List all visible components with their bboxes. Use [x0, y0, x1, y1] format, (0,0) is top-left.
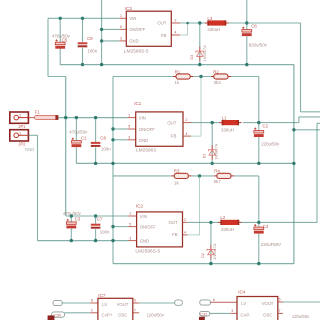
- wire D1 branch: [211, 123, 213, 164]
- svg-text:R2: R2: [213, 69, 219, 74]
- node right gnd junction row B: [292, 162, 295, 165]
- wire JP2 to gnd corner: [28, 134, 37, 136]
- wire R4 to output node: [234, 175, 259, 177]
- resistor R2: [211, 74, 231, 79]
- svg-text:L3: L3: [207, 16, 212, 21]
- node D3 top junction: [198, 21, 201, 24]
- wire R3 to R4: [191, 175, 213, 177]
- capacitor C3: [66, 219, 76, 228]
- svg-text:IC7: IC7: [98, 293, 106, 298]
- wire C7 branch: [95, 216, 97, 224]
- svg-text:100n: 100n: [101, 147, 111, 152]
- pin stub IC4 LV long: [210, 301, 237, 303]
- svg-text:D3: D3: [190, 55, 194, 60]
- diode D2: [207, 245, 215, 259]
- svg-text:5: 5: [134, 299, 136, 303]
- wire L2 to right riser: [242, 221, 317, 223]
- capacitor C32: [199, 311, 210, 320]
- wire IC1 GND: [113, 139, 128, 141]
- pad SJ2: [175, 300, 183, 305]
- op-amp U-box IC3 regulator: [126, 11, 171, 46]
- op-amp U-box IC1 regulator: [136, 112, 183, 146]
- wire FB jog to pin: [191, 135, 201, 137]
- wire L1 to C2: [243, 122, 299, 124]
- svg-text:C32: C32: [200, 313, 207, 317]
- wire +12V jog: [48, 76, 66, 78]
- node C9 bottom junction: [81, 63, 84, 66]
- pin stubs IC4 right: [278, 301, 283, 303]
- resistor R3: [171, 173, 191, 178]
- node C3 top junction: [70, 214, 73, 217]
- node C2 top junction: [257, 121, 260, 124]
- svg-text:1: 1: [129, 212, 131, 216]
- node C3 gnd junction: [70, 239, 73, 242]
- pin stub IC4 CAP-: [231, 312, 237, 314]
- svg-text:C1: C1: [81, 136, 87, 141]
- svg-text:4: 4: [186, 132, 188, 136]
- svg-text:C4: C4: [263, 224, 269, 229]
- resistor R4: [214, 173, 234, 178]
- svg-text:4: 4: [175, 31, 177, 35]
- wire +5V3 exit right: [301, 111, 320, 113]
- wire C4 branch: [258, 222, 260, 227]
- node C7 top junction: [94, 214, 97, 217]
- wire IC2 ON/OFF: [113, 226, 129, 228]
- node D2 gnd junction: [209, 262, 212, 265]
- svg-text:FB: FB: [172, 232, 178, 237]
- wire +12V vertical trunk left segment: [47, 18, 49, 76]
- node D3 gnd junction: [198, 63, 201, 66]
- svg-text:L1: L1: [222, 115, 227, 120]
- op-amp U-box IC2 regulator: [137, 212, 183, 247]
- svg-text:330uH: 330uH: [207, 27, 220, 32]
- svg-text:2: 2: [186, 118, 188, 122]
- svg-text:CAP-: CAP-: [241, 313, 252, 318]
- wire FB divider vertical: [200, 77, 202, 137]
- svg-text:GND: GND: [129, 39, 138, 44]
- svg-text:5: 5: [279, 298, 281, 302]
- svg-text:D1: D1: [202, 154, 206, 159]
- svg-text:2: 2: [184, 218, 186, 222]
- svg-text:VIN: VIN: [129, 16, 136, 21]
- pin stubs IC2 right: [183, 221, 188, 223]
- wire +5V1 exit right: [299, 116, 320, 118]
- capacitor C30: [48, 312, 65, 320]
- capacitor C9: [78, 42, 88, 47]
- svg-text:100n: 100n: [87, 48, 97, 53]
- wire IC1 ON/OFF: [113, 128, 128, 130]
- wire IC4 VOUT exit right: [283, 301, 320, 303]
- node C8 gnd junction: [94, 162, 97, 165]
- svg-text:2: 2: [91, 308, 93, 312]
- svg-text:FB: FB: [171, 133, 177, 138]
- node IC2 ON/OFF junction: [111, 225, 114, 228]
- op-amp U-box IC7 charge pump: [98, 298, 133, 320]
- svg-text:FB: FB: [161, 33, 167, 38]
- capacitor C7: [91, 224, 101, 229]
- wire C8 branch: [95, 118, 97, 142]
- node R1-R2 junction: [199, 75, 202, 78]
- node IC3 gnd rail junction: [100, 63, 103, 66]
- wire C2 branch: [258, 123, 260, 131]
- fuse F1: [35, 115, 59, 120]
- pad SJ3: [200, 300, 211, 305]
- node IC3 ON/OFF junction: [100, 28, 103, 31]
- capacitor C4: [254, 224, 264, 233]
- node C6 gnd junction: [245, 63, 248, 66]
- capacitor C5: [55, 39, 65, 48]
- inductor L1: [219, 120, 241, 125]
- svg-text:GND: GND: [139, 138, 148, 143]
- wire +12V row B: [58, 117, 127, 119]
- svg-text:VOUT: VOUT: [117, 302, 129, 307]
- wire IC3 GND: [102, 40, 120, 42]
- svg-text:4: 4: [184, 231, 186, 235]
- svg-text:C30: C30: [54, 313, 61, 317]
- svg-text:F1: F1: [35, 110, 41, 115]
- svg-text:6: 6: [213, 298, 215, 302]
- wire GND rail row B: [76, 162, 294, 164]
- svg-text:1: 1: [19, 114, 21, 118]
- wire C1 branch: [75, 118, 77, 141]
- diode D1: [208, 145, 216, 159]
- svg-text:CAP+: CAP+: [101, 312, 113, 317]
- svg-text:120u/50v: 120u/50v: [292, 314, 310, 319]
- svg-text:GND: GND: [25, 147, 35, 152]
- svg-text:330uH: 330uH: [221, 127, 234, 132]
- svg-text:3: 3: [128, 136, 130, 140]
- svg-text:JP2: JP2: [18, 142, 26, 147]
- svg-text:LV: LV: [241, 301, 246, 306]
- svg-text:C2: C2: [262, 124, 268, 129]
- svg-text:1N5817A: 1N5817A: [212, 243, 217, 260]
- svg-text:3k3: 3k3: [214, 80, 222, 85]
- wire GND exit right: [294, 129, 320, 131]
- connector JP1: [10, 112, 29, 123]
- inductor L2: [218, 220, 242, 225]
- svg-text:120u/50v: 120u/50v: [147, 312, 165, 317]
- wire GND drop right side: [293, 65, 295, 264]
- wire D2 branch: [210, 222, 212, 263]
- svg-text:1N5817A: 1N5817A: [202, 45, 207, 62]
- node IC3 FB-OUT junction: [186, 22, 189, 25]
- node C5 top junction: [59, 17, 62, 20]
- wire +5V2 riser right: [316, 123, 318, 222]
- pin stubs IC2 left: [129, 215, 137, 217]
- node C1 top junction: [75, 116, 78, 119]
- svg-text:ON/OFF: ON/OFF: [140, 224, 156, 229]
- op-amp U-box IC4 charge pump: [237, 297, 278, 320]
- wire C32 to IC4 CAP-: [210, 312, 231, 314]
- wire C9 branch: [82, 18, 84, 42]
- svg-text:IC2: IC2: [136, 204, 144, 209]
- wire pad to IC7 LV: [62, 302, 90, 304]
- wire +12V row C feed: [66, 215, 129, 217]
- wire gnd rail row C input: [38, 240, 129, 242]
- svg-text:C6: C6: [251, 24, 257, 29]
- wire C3 branch: [70, 216, 72, 222]
- svg-text:GND: GND: [140, 238, 149, 243]
- svg-text:R4: R4: [214, 169, 220, 174]
- svg-text:C3: C3: [75, 217, 81, 222]
- svg-text:1k: 1k: [174, 80, 179, 85]
- inductor L3: [205, 20, 229, 25]
- wire C6 branch: [246, 23, 248, 29]
- node D2 top junction: [209, 221, 212, 224]
- node C4 gnd junction: [257, 262, 260, 265]
- pin stubs IC7 left: [90, 302, 98, 304]
- wire C5 branch: [59, 18, 61, 42]
- svg-text:IC4: IC4: [238, 290, 246, 295]
- pin stubs IC1 right: [183, 122, 191, 124]
- svg-text:1: 1: [128, 113, 130, 117]
- svg-text:OUT: OUT: [167, 120, 176, 125]
- wire IC7 VOUT to pad: [139, 302, 175, 304]
- node enable gnd junction row B: [111, 162, 114, 165]
- node trunk +12V junction: [64, 116, 67, 119]
- node GND branch junction: [292, 128, 295, 131]
- svg-text:1: 1: [120, 14, 122, 18]
- svg-text:IC1: IC1: [134, 101, 142, 106]
- wire +5V3 to right: [247, 22, 301, 24]
- wire IC3 ON/OFF: [102, 28, 120, 30]
- pin stubs IC3 left: [120, 17, 127, 19]
- wire IC3 FB to OUT: [180, 34, 188, 36]
- svg-text:3: 3: [129, 236, 131, 240]
- svg-text:JP1: JP1: [18, 124, 26, 129]
- wire C30 to IC7 CAP+: [65, 312, 91, 314]
- svg-text:220u/50v: 220u/50v: [261, 141, 280, 146]
- node C2 gnd junction: [257, 162, 260, 165]
- svg-text:OSC: OSC: [263, 313, 272, 318]
- wire enable-gnd vertical rows B and C: [112, 77, 114, 264]
- wire VIN rail row A: [48, 17, 120, 19]
- node R3-R4 junction: [198, 174, 201, 177]
- svg-text:ON/OFF: ON/OFF: [129, 27, 145, 32]
- svg-text:470u/50v: 470u/50v: [63, 211, 82, 216]
- node C4 top junction: [257, 221, 260, 224]
- svg-text:C5: C5: [62, 38, 68, 43]
- wire +5V1 up jog: [298, 117, 300, 123]
- pin stubs IC7 right: [133, 302, 139, 304]
- svg-text:820u/50v: 820u/50v: [249, 43, 268, 48]
- wire +12V trunk vertical: [65, 77, 67, 217]
- svg-text:6k7: 6k7: [214, 179, 222, 184]
- wire GND rail row C: [113, 263, 294, 265]
- svg-text:5: 5: [128, 125, 130, 129]
- capacitor C8: [91, 142, 101, 147]
- wire JP1 to fuse: [28, 117, 35, 119]
- wire IC1 OUT to L1: [191, 122, 219, 124]
- svg-text:VOUT: VOUT: [262, 301, 274, 306]
- node D1 top junction: [211, 121, 214, 124]
- wire R3 feedback rail: [113, 175, 171, 177]
- wire IC2 OUT to L2: [187, 221, 218, 223]
- node IC3 GND junction: [100, 39, 103, 42]
- svg-text:C8: C8: [100, 136, 106, 141]
- svg-text:OSC: OSC: [118, 312, 127, 317]
- wire FB divider vertical row C: [199, 176, 201, 235]
- node C7 gnd junction: [94, 239, 97, 242]
- svg-text:7: 7: [279, 309, 281, 313]
- wire FB jog to pin row C: [187, 234, 199, 236]
- wire +5V2 exit right: [317, 122, 320, 124]
- wire +5V3 drop right side: [300, 23, 302, 112]
- wire R1 feedback rail: [113, 76, 173, 78]
- svg-text:C7: C7: [97, 217, 103, 222]
- svg-text:R1: R1: [175, 69, 181, 74]
- svg-text:LV: LV: [102, 302, 107, 307]
- node C9 top junction: [81, 17, 84, 20]
- svg-text:D2: D2: [201, 253, 205, 258]
- wire IC3 OUT to L3: [180, 22, 205, 24]
- svg-text:LM2596S-5: LM2596S-5: [135, 249, 160, 255]
- svg-text:1N5817A: 1N5817A: [214, 143, 219, 160]
- pin stubs IC3 right: [171, 22, 180, 24]
- wire GND rail row A: [60, 64, 294, 66]
- wire L3 to C6: [229, 22, 247, 24]
- resistor R1: [173, 74, 193, 79]
- svg-text:ON/OFF: ON/OFF: [139, 127, 155, 132]
- svg-text:7: 7: [134, 308, 136, 312]
- svg-text:VIN: VIN: [139, 116, 146, 121]
- svg-text:5: 5: [129, 222, 131, 226]
- wire IC3 enable-gnd vertical from top edge: [101, 0, 103, 65]
- svg-text:3: 3: [231, 309, 233, 313]
- svg-text:8: 8: [91, 299, 93, 303]
- node IC1 GND junction: [111, 138, 114, 141]
- wire JP2 gnd vertical: [37, 135, 39, 240]
- svg-text:LM2596S-5: LM2596S-5: [124, 49, 149, 55]
- svg-text:VIN: VIN: [140, 214, 147, 219]
- capacitor C6: [242, 27, 252, 36]
- wire R2 to output node: [231, 76, 259, 78]
- wire R1 to R2: [193, 76, 211, 78]
- connector JP2: [10, 130, 29, 141]
- node C6 top junction: [245, 21, 248, 24]
- svg-text:2: 2: [175, 19, 177, 23]
- svg-text:220uF50V: 220uF50V: [261, 242, 281, 247]
- svg-text:R3: R3: [174, 169, 180, 174]
- pin stubs IC1 left: [128, 117, 136, 119]
- svg-text:3: 3: [120, 37, 122, 41]
- svg-text:1k: 1k: [174, 181, 179, 186]
- svg-text:OUT: OUT: [169, 220, 178, 225]
- svg-text:LM2596S: LM2596S: [136, 148, 157, 154]
- svg-text:470u/50v: 470u/50v: [69, 130, 88, 135]
- svg-text:IC3: IC3: [125, 6, 133, 11]
- node D1 gnd junction: [211, 162, 214, 165]
- svg-text:C9: C9: [87, 36, 93, 41]
- diode D3: [196, 47, 204, 61]
- svg-text:330uH: 330uH: [221, 227, 234, 232]
- svg-text:OUT: OUT: [157, 21, 166, 26]
- svg-text:5: 5: [120, 25, 122, 29]
- svg-text:1: 1: [19, 131, 21, 135]
- capacitor C2: [254, 128, 264, 137]
- node C8 top junction: [94, 116, 97, 119]
- wire D3 branch: [199, 23, 201, 65]
- svg-text:L2: L2: [220, 215, 225, 220]
- wire +5V3 up to top edge: [246, 0, 248, 23]
- svg-text:100n: 100n: [100, 229, 110, 234]
- pad SJ1: [53, 301, 62, 306]
- capacitor C1: [72, 138, 82, 147]
- node enable gnd junction row C rail: [111, 239, 114, 242]
- node IC1 ON/OFF junction: [111, 127, 114, 130]
